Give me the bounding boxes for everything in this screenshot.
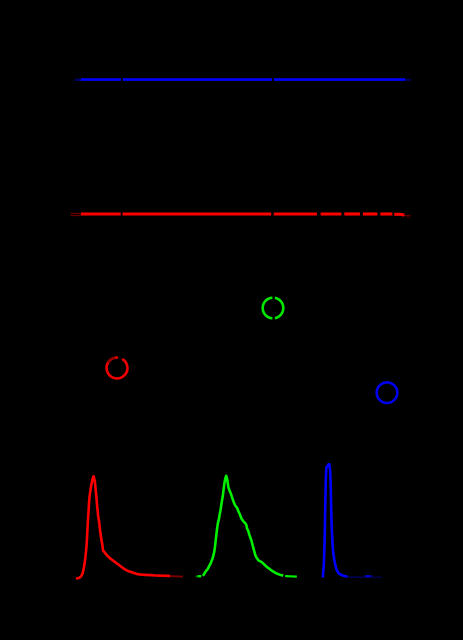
blue efficiency line segment 1 <box>81 78 121 81</box>
green circle marker bottom gap <box>272 317 274 321</box>
red spectrum peak <box>76 476 170 578</box>
green spectrum lead (dim) <box>196 575 198 577</box>
red efficiency line dash 7 <box>380 212 392 215</box>
red efficiency line segment 2 <box>123 212 272 215</box>
red efficiency line segment 1 <box>81 212 121 215</box>
blue efficiency line segment 3 <box>274 78 405 81</box>
red efficiency line fade-out tail (dim) <box>406 216 411 218</box>
blue efficiency line lead-in (dim) <box>75 79 82 81</box>
red efficiency line segment 3 <box>274 212 317 215</box>
red efficiency line dash 8 (sloping end) <box>394 213 404 217</box>
red efficiency line dash 5 <box>344 212 360 215</box>
blue spectrum tail bright dash <box>365 575 372 577</box>
green spectrum tail dash <box>285 575 297 578</box>
green circle marker <box>263 298 284 319</box>
red efficiency line fade-out (dim) <box>405 214 411 216</box>
green spectrum baseline dash <box>198 575 202 577</box>
red spectrum tail (dim) <box>170 575 183 578</box>
blue circle marker <box>377 382 398 403</box>
blue spectrum tail dim 1 <box>348 576 365 578</box>
red efficiency line dash 6 <box>363 212 378 215</box>
blue efficiency line segment 2 <box>123 78 272 81</box>
blue spectrum peak <box>323 464 348 577</box>
red efficiency line lead-in upper (dim) <box>71 212 81 214</box>
red efficiency line lead-in lower (dim) <box>71 215 81 217</box>
red circle marker (arc with top gap) <box>107 358 128 379</box>
blue efficiency line fade-out (dim) <box>405 79 411 81</box>
red circle marker dim top-left arc <box>108 358 116 363</box>
red efficiency line dash 4 <box>321 212 342 215</box>
green circle marker top gap <box>272 295 274 299</box>
blue spectrum tail dim 2 <box>372 576 382 578</box>
green spectrum peak <box>203 476 283 576</box>
